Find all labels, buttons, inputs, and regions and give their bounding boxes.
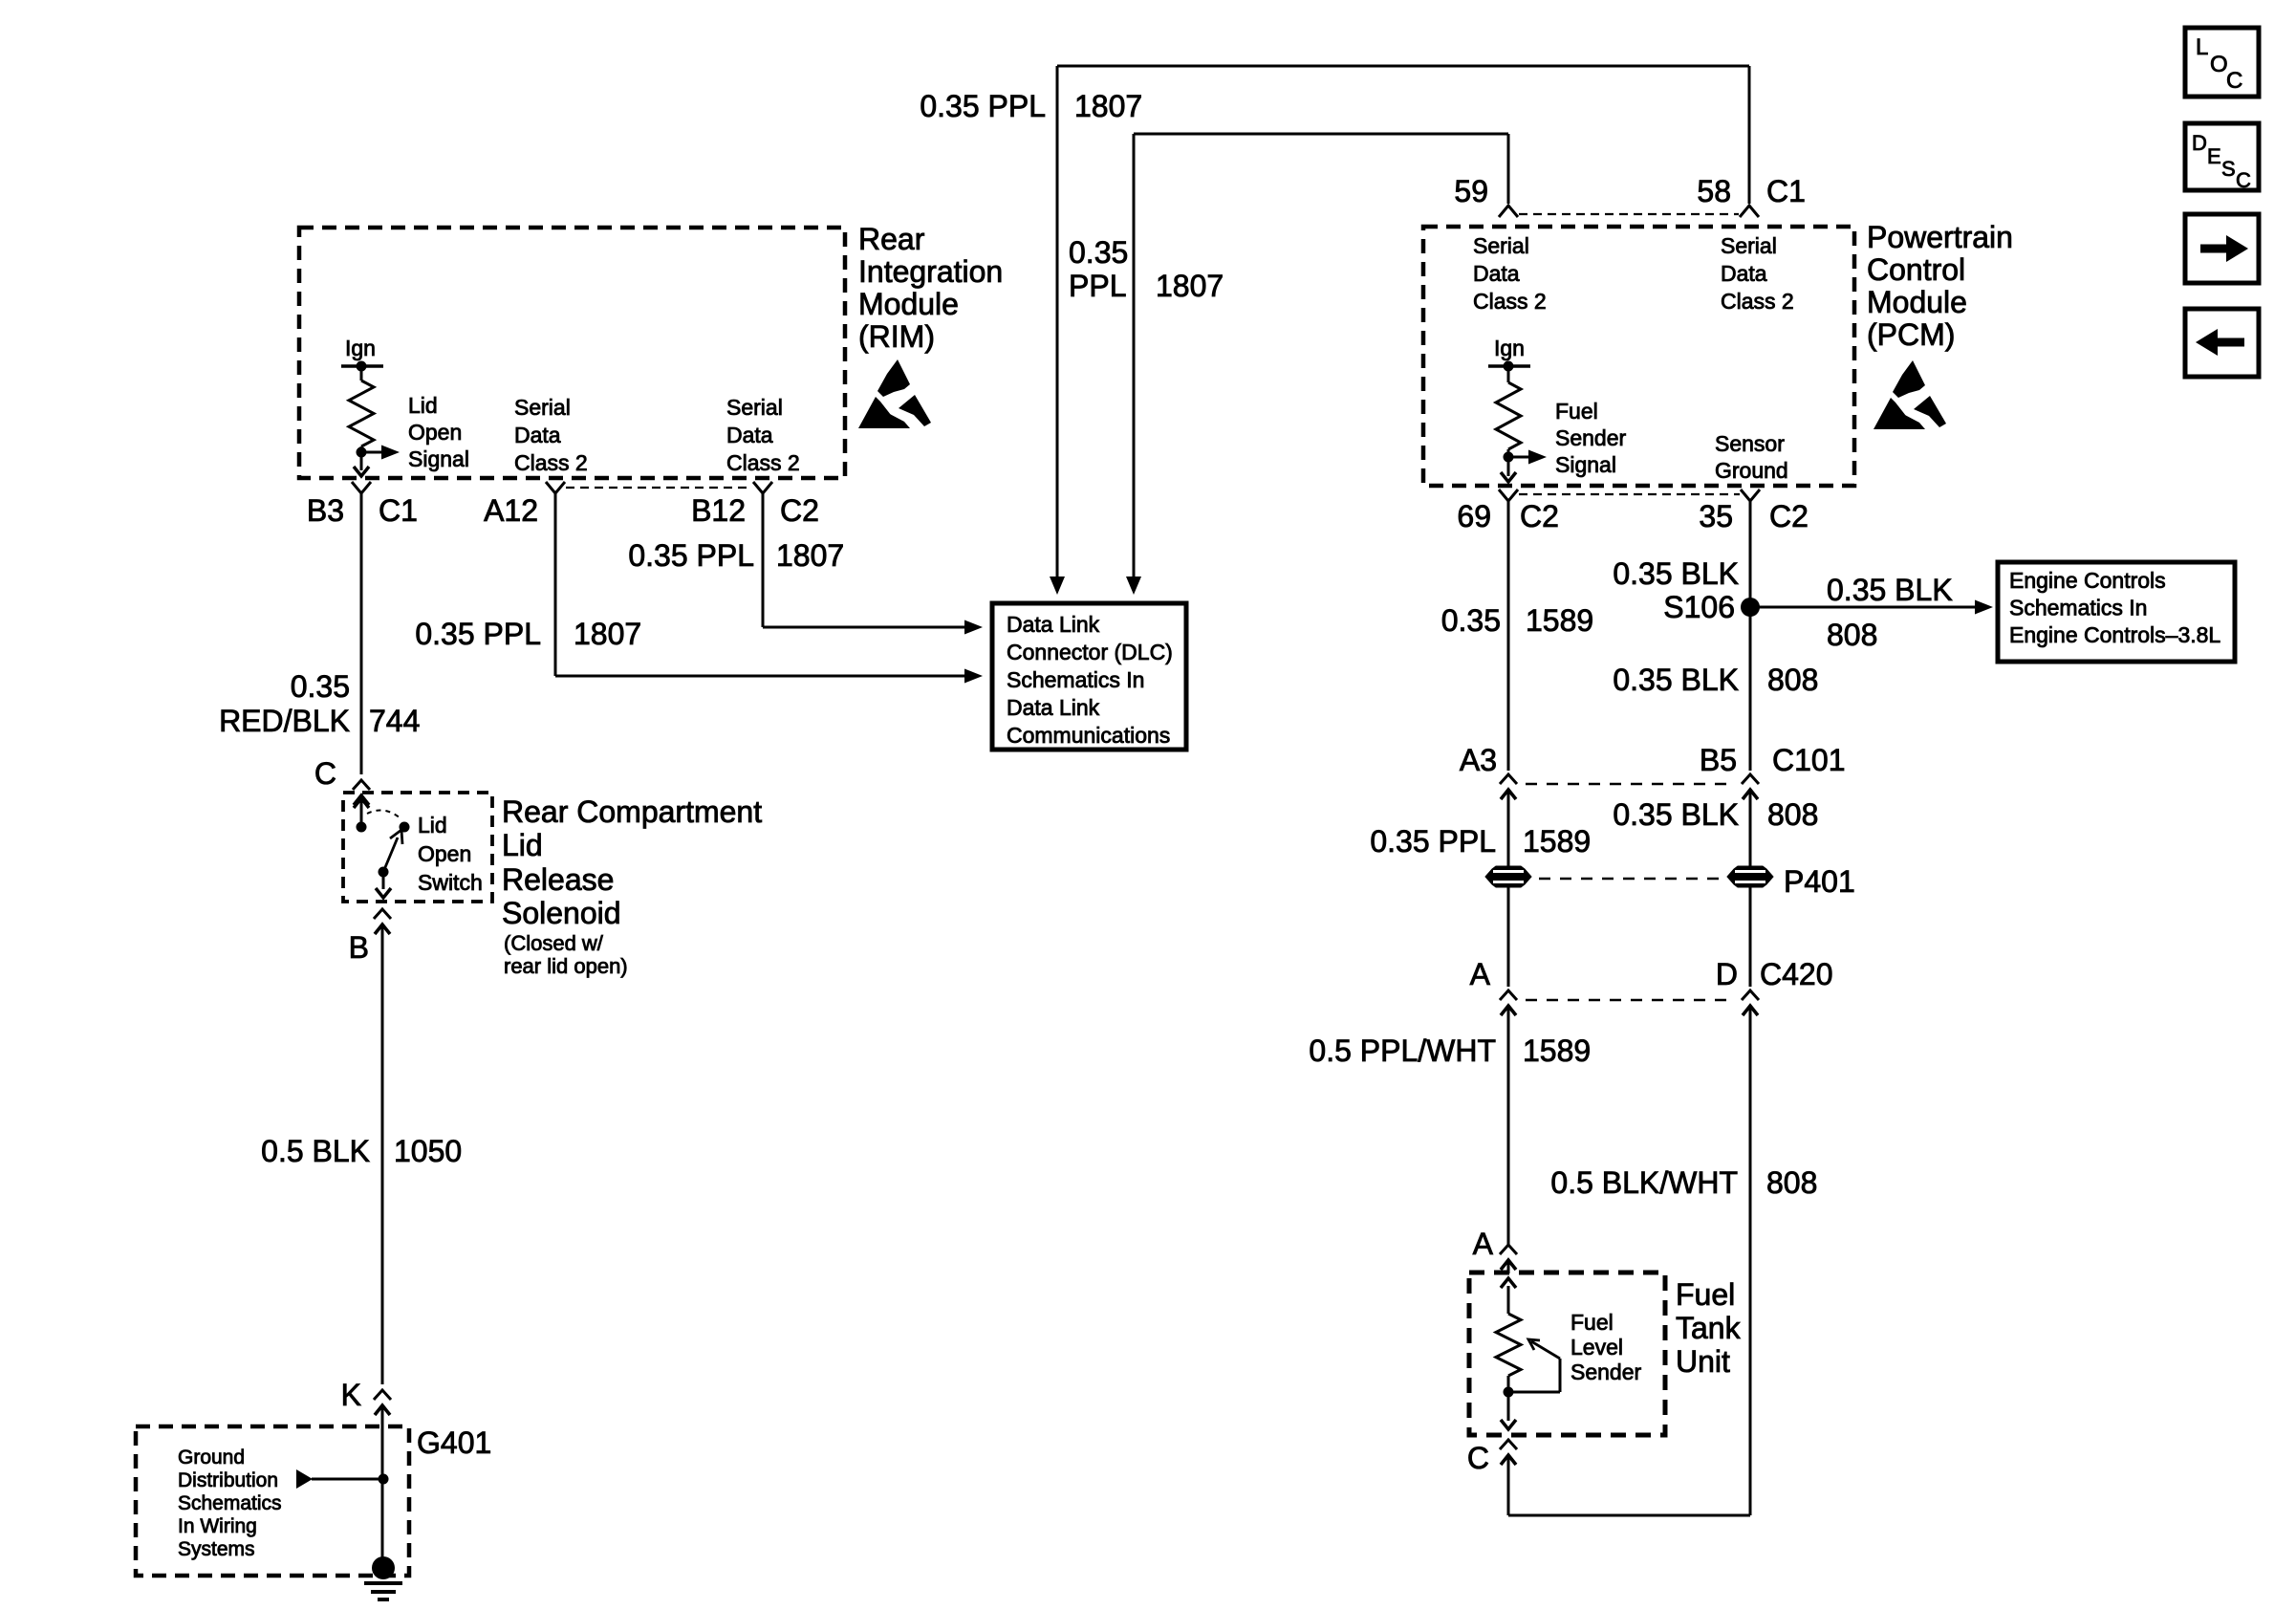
svg-text:C: C: [2226, 68, 2242, 94]
node B label: [349, 930, 369, 965]
svg-text:G401: G401: [417, 1425, 491, 1460]
G401 junction dot: [379, 1474, 389, 1485]
svg-text:C2: C2: [780, 493, 819, 528]
connector A inline (fuel tank): [1500, 1245, 1517, 1273]
svg-text:1807: 1807: [1156, 269, 1224, 303]
module PCM box: [1423, 227, 1854, 486]
pin label B5: [1700, 743, 1737, 777]
connector C420 dashed boundary: [1526, 999, 1733, 1002]
wire 1589 ppl (P401 to A): [1507, 887, 1510, 987]
svg-text:S106: S106: [1663, 590, 1735, 624]
svg-text:Solenoid: Solenoid: [502, 896, 621, 930]
G401 label: [417, 1425, 491, 1460]
svg-text:0.35 PPL: 0.35 PPL: [415, 617, 541, 651]
svg-text:35: 35: [1699, 499, 1733, 533]
RIM Ign net label: [345, 336, 376, 360]
switch contact dot (common): [357, 822, 367, 833]
connector K inline: [374, 1390, 391, 1419]
wire 1589 ppl (69 to A3): [1507, 501, 1510, 771]
svg-text:Communications: Communications: [1007, 723, 1170, 748]
wire 808 blk (S106 to engine controls): [1750, 600, 1993, 615]
svg-text:Schematics In: Schematics In: [1007, 667, 1144, 692]
svg-text:0.5 BLK/WHT: 0.5 BLK/WHT: [1550, 1165, 1738, 1200]
fuel sender junction dot: [1504, 1376, 1514, 1398]
svg-text:808: 808: [1767, 797, 1818, 832]
LOC navigation icon: [2185, 28, 2259, 97]
back arrow icon: [2185, 309, 2259, 377]
RIM label Lid Open Signal: [408, 393, 469, 471]
node S106 label: [1663, 590, 1735, 624]
svg-text:Module: Module: [1867, 285, 1967, 319]
fuel tank pin C internal arrow: [1501, 1392, 1516, 1429]
svg-text:rear lid open): rear lid open): [504, 954, 628, 978]
pin label 59: [1454, 174, 1488, 208]
switch mechanical link dashed arc: [367, 810, 401, 818]
ESD symbol (PCM): [1874, 360, 1946, 429]
svg-text:Rear: Rear: [858, 222, 925, 256]
svg-text:B: B: [349, 930, 369, 965]
svg-text:1050: 1050: [394, 1134, 462, 1168]
svg-text:Signal: Signal: [1555, 452, 1616, 477]
svg-text:Ground: Ground: [178, 1447, 245, 1469]
svg-text:C1: C1: [1766, 174, 1806, 208]
wire label 0.5 PPL/WHT 1589: [1309, 1033, 1591, 1068]
wire label 0.35 BLK (above S106): [1613, 556, 1739, 591]
svg-text:C2: C2: [1520, 499, 1559, 533]
PCM pin 58 connector fork: [1740, 206, 1759, 217]
svg-text:Data: Data: [1473, 261, 1520, 286]
DLC arrow (from B12): [964, 620, 983, 635]
svg-text:59: 59: [1454, 174, 1488, 208]
RIM label Serial Data Class 2 (B12): [726, 395, 800, 475]
wire label 0.5 BLK/WHT 808: [1550, 1165, 1817, 1200]
PCM pin 35 connector fork: [1741, 490, 1760, 501]
svg-text:0.35: 0.35: [1069, 235, 1128, 270]
svg-text:S: S: [2221, 157, 2236, 181]
svg-text:Engine Controls: Engine Controls: [2009, 568, 2166, 593]
svg-text:808: 808: [1827, 618, 1877, 652]
svg-text:In Wiring: In Wiring: [178, 1515, 257, 1537]
svg-text:Sender: Sender: [1570, 1360, 1642, 1384]
fuel tank unit box: [1469, 1273, 1665, 1435]
PCM pin 69 internal arrow: [1501, 457, 1516, 482]
connector label C2 (pin69): [1520, 499, 1559, 533]
svg-text:C: C: [1467, 1441, 1489, 1475]
svg-text:Fuel: Fuel: [1676, 1277, 1735, 1312]
svg-text:Systems: Systems: [178, 1538, 255, 1560]
svg-text:0.35: 0.35: [1441, 603, 1501, 638]
svg-text:L: L: [2196, 34, 2208, 60]
module RIM title: [858, 222, 1003, 354]
svg-text:Signal: Signal: [408, 446, 469, 471]
pin label 35: [1699, 499, 1733, 533]
PCM label Fuel Sender Signal: [1555, 399, 1627, 477]
svg-text:D: D: [1716, 957, 1738, 991]
svg-text:Fuel: Fuel: [1570, 1310, 1614, 1335]
svg-text:Data Link: Data Link: [1007, 695, 1100, 720]
svg-text:Release: Release: [502, 862, 614, 897]
connector C inline: [353, 780, 370, 809]
PCM label Serial Data Class 2 (58): [1721, 233, 1794, 314]
wire 1807 serial data class2 (PCM 59 to DLC): [1126, 134, 1508, 595]
svg-text:C2: C2: [1769, 499, 1809, 533]
svg-text:A3: A3: [1460, 743, 1497, 777]
PCM Ign net label: [1494, 336, 1525, 360]
PCM connector C1 dashed boundary: [1519, 213, 1739, 215]
svg-text:0.35 BLK: 0.35 BLK: [1613, 663, 1739, 697]
resistor R-RIM lid open pull-up: [349, 366, 374, 452]
svg-text:Serial: Serial: [726, 395, 783, 420]
svg-text:Switch: Switch: [418, 870, 483, 895]
node C label: [314, 756, 336, 791]
splice S106 junction dot: [1741, 598, 1760, 617]
svg-text:Unit: Unit: [1676, 1344, 1730, 1379]
connector label C2 (RIM): [780, 493, 819, 528]
svg-text:0.35: 0.35: [291, 669, 350, 704]
svg-text:Connector (DLC): Connector (DLC): [1007, 640, 1173, 664]
wire 808 blk (S106 to B5): [1749, 607, 1752, 771]
svg-text:0.35 PPL: 0.35 PPL: [920, 89, 1046, 123]
wire label 0.35 PPL 1807 (top): [920, 89, 1142, 123]
svg-text:D: D: [2192, 131, 2207, 155]
svg-text:0.5 BLK: 0.5 BLK: [261, 1134, 370, 1168]
svg-text:Open: Open: [408, 420, 462, 445]
pin label A (fuel tank): [1473, 1227, 1494, 1261]
pin label B3: [307, 493, 344, 528]
fuel tank pin A internal arrow: [1501, 1278, 1516, 1314]
svg-text:Lid: Lid: [408, 393, 438, 418]
wire label 0.35 PPL 1807 (B12 drop): [628, 538, 844, 573]
pin label A12: [484, 493, 538, 528]
RIM pin B12 connector fork: [753, 482, 772, 493]
node K label: [341, 1378, 361, 1412]
svg-text:744: 744: [369, 704, 420, 738]
wire 1050 black (B to K): [381, 938, 384, 1384]
pin label D (C420): [1716, 957, 1738, 991]
svg-text:Lid: Lid: [418, 813, 447, 838]
RIM ignition feed bar: [341, 364, 383, 368]
connector C101 inline (A3): [1500, 774, 1517, 803]
ground distribution reference box G401: [136, 1426, 409, 1576]
connector B inline: [374, 909, 391, 938]
svg-text:Data: Data: [1721, 261, 1767, 286]
fuel sender wiper arrow: [1508, 1339, 1560, 1392]
RIM junction dot (signal): [357, 447, 367, 458]
grommet P401 (left): [1485, 866, 1531, 887]
pin label B12: [691, 493, 746, 528]
DLC arrow (from A12): [964, 669, 983, 684]
resistor R-PCM fuel sender pull-up: [1496, 366, 1521, 457]
connector label C1 (PCM): [1766, 174, 1806, 208]
RIM lid open signal arrow: [361, 446, 400, 460]
svg-text:69: 69: [1457, 499, 1491, 533]
svg-text:808: 808: [1767, 663, 1818, 697]
wire 1807 (RIM A12 to DLC): [555, 493, 964, 676]
svg-text:Class 2: Class 2: [514, 450, 588, 475]
svg-text:(Closed w/: (Closed w/: [504, 931, 604, 955]
svg-text:A12: A12: [484, 493, 538, 528]
svg-text:Data: Data: [514, 423, 561, 447]
wire to ground stud: [381, 1419, 384, 1558]
wire label 0.35 RED/BLK 744: [219, 669, 420, 738]
svg-text:B12: B12: [691, 493, 746, 528]
fuel tank unit title: [1676, 1277, 1742, 1379]
svg-text:Engine Controls–3.8L: Engine Controls–3.8L: [2009, 622, 2220, 647]
svg-text:(PCM): (PCM): [1867, 317, 1955, 352]
DESC navigation icon: [2185, 123, 2259, 192]
wire sensor ground return: [1508, 1469, 1750, 1515]
wire 1807 serial data class2 (PCM 58 to DLC): [1050, 66, 1749, 595]
ground G401 symbol: [364, 1556, 402, 1599]
svg-text:0.35 BLK: 0.35 BLK: [1613, 797, 1739, 832]
PCM pin 59 connector fork: [1499, 206, 1518, 217]
forward arrow icon: [2185, 214, 2259, 283]
connector label C420: [1760, 957, 1833, 991]
svg-text:Serial: Serial: [1721, 233, 1777, 258]
svg-text:Class 2: Class 2: [1473, 289, 1547, 314]
PCM ignition feed bar: [1488, 364, 1530, 368]
PCM junction dot (signal): [1504, 452, 1514, 463]
engine controls reference box: [1998, 562, 2235, 662]
svg-text:0.35 PPL: 0.35 PPL: [1370, 824, 1496, 859]
svg-text:O: O: [2210, 52, 2228, 77]
svg-text:Sender: Sender: [1555, 425, 1627, 450]
svg-text:C: C: [2236, 168, 2251, 192]
ground distribution text: [178, 1447, 282, 1560]
PCM fuel sender signal arrow: [1508, 450, 1547, 465]
RIM pin B3 internal arrow: [354, 452, 369, 476]
wire label 0.5 BLK 1050: [261, 1134, 462, 1168]
PCM connector C2 dashed boundary: [1519, 493, 1740, 495]
RIM connector C2 dashed boundary: [566, 487, 752, 489]
rear compartment lid release solenoid box: [343, 793, 492, 902]
wire label 0.35 PPL 1807 (second): [1069, 235, 1224, 303]
svg-text:Schematics: Schematics: [178, 1492, 282, 1514]
svg-text:0.35 BLK: 0.35 BLK: [1613, 556, 1739, 591]
wire 744 red/blk (B3 to C): [360, 493, 363, 774]
wire 1589 ppl (A3 to P401): [1507, 803, 1510, 866]
connector C420 inline (A): [1500, 990, 1517, 1019]
pin label A3: [1460, 743, 1497, 777]
svg-text:1807: 1807: [776, 538, 844, 573]
svg-text:Data Link: Data Link: [1007, 612, 1100, 637]
wire 1589 ppl/wht (A to fuel tank): [1507, 1019, 1510, 1245]
node C label (fuel tank): [1467, 1441, 1489, 1475]
grommet P401 dashed boundary: [1539, 878, 1721, 881]
switch pivot dot: [379, 867, 389, 878]
wire label 0.35 BLK 808 (branch): [1827, 573, 1953, 652]
connector C101 dashed boundary: [1526, 783, 1733, 786]
svg-text:Class 2: Class 2: [1721, 289, 1794, 314]
label Fuel Level Sender: [1570, 1310, 1642, 1384]
DLC reference text: [1007, 612, 1173, 748]
svg-text:RED/BLK: RED/BLK: [219, 704, 350, 738]
wire 808 blk (B5 to P401): [1749, 803, 1752, 866]
PCM pin 69 connector fork: [1499, 490, 1518, 501]
DLC reference box: [992, 603, 1186, 750]
connector C420 inline (D): [1742, 990, 1759, 1019]
grommet P401 (right): [1727, 866, 1773, 887]
svg-text:0.5 PPL/WHT: 0.5 PPL/WHT: [1309, 1033, 1496, 1068]
svg-text:Integration: Integration: [858, 254, 1003, 289]
switch upper contact arrow: [354, 798, 369, 827]
svg-text:Powertrain: Powertrain: [1867, 220, 2013, 254]
connector label C101: [1772, 743, 1846, 777]
svg-text:P401: P401: [1784, 864, 1855, 899]
svg-text:Ground: Ground: [1715, 458, 1788, 483]
svg-text:B3: B3: [307, 493, 344, 528]
svg-text:1807: 1807: [1074, 89, 1142, 123]
svg-text:E: E: [2207, 144, 2221, 168]
svg-text:1807: 1807: [574, 617, 641, 651]
wire label 0.35 PPL 1807 (A12 drop): [415, 617, 641, 651]
connector C101 inline (B5): [1742, 774, 1759, 803]
PCM label Sensor Ground: [1715, 431, 1788, 483]
svg-text:0.35 BLK: 0.35 BLK: [1827, 573, 1953, 607]
svg-text:Schematics In: Schematics In: [2009, 596, 2147, 620]
svg-text:Fuel: Fuel: [1555, 399, 1598, 424]
solenoid note: [504, 931, 628, 978]
connector C inline (fuel tank): [1500, 1440, 1517, 1469]
svg-text:C: C: [314, 756, 336, 791]
resistor fuel level sender: [1496, 1314, 1521, 1376]
ground ref arrow: [296, 1469, 383, 1489]
svg-text:Module: Module: [858, 287, 959, 321]
svg-text:K: K: [341, 1378, 361, 1412]
svg-text:58: 58: [1697, 174, 1731, 208]
solenoid title: [502, 794, 762, 930]
svg-text:A: A: [1473, 1227, 1494, 1261]
pin label A (C420): [1470, 957, 1491, 991]
svg-text:Serial: Serial: [1473, 233, 1529, 258]
svg-text:Lid: Lid: [502, 828, 543, 862]
module PCM title: [1867, 220, 2013, 352]
switch blade S1 lid open switch: [383, 830, 402, 872]
svg-text:0.35 PPL: 0.35 PPL: [628, 538, 754, 573]
svg-text:Sensor: Sensor: [1715, 431, 1785, 456]
module RIM box: [299, 228, 845, 478]
svg-text:C101: C101: [1772, 743, 1846, 777]
svg-text:Rear Compartment: Rear Compartment: [502, 794, 762, 829]
svg-text:B5: B5: [1700, 743, 1737, 777]
svg-text:Ign: Ign: [1494, 336, 1525, 360]
wire 808 blk/wht (D to bottom): [1749, 1019, 1752, 1515]
svg-text:1589: 1589: [1523, 1033, 1591, 1068]
switch contact dot (lid): [400, 822, 410, 833]
wire label 0.35 BLK 808 (upper): [1613, 663, 1818, 697]
svg-text:Serial: Serial: [514, 395, 571, 420]
wire 1807 (RIM B12/C2 to DLC): [763, 493, 964, 627]
svg-text:Level: Level: [1570, 1335, 1623, 1360]
svg-text:A: A: [1470, 957, 1491, 991]
wire 808 blk (P401 to D): [1749, 887, 1752, 987]
svg-text:Data: Data: [726, 423, 773, 447]
svg-text:Control: Control: [1867, 252, 1965, 287]
svg-text:Ign: Ign: [345, 336, 376, 360]
connector label C1 (RIM): [379, 493, 418, 528]
RIM junction dot (Ign): [357, 361, 367, 372]
svg-text:Open: Open: [418, 841, 471, 866]
svg-text:1589: 1589: [1523, 824, 1591, 859]
wire 808 blk (35 to S106): [1749, 501, 1752, 607]
PCM label Serial Data Class 2 (59): [1473, 233, 1547, 314]
RIM label Serial Data Class 2 (A12): [514, 395, 588, 475]
PCM junction dot (Ign): [1504, 361, 1514, 372]
ESD symbol (RIM): [858, 359, 931, 428]
pin label 58: [1697, 174, 1731, 208]
svg-text:(RIM): (RIM): [858, 319, 935, 354]
svg-text:Distribution: Distribution: [178, 1469, 278, 1491]
connector label P401: [1784, 864, 1855, 899]
switch lower arrow: [376, 872, 391, 898]
svg-text:808: 808: [1766, 1165, 1817, 1200]
wire label 0.35 PPL 1589 (above P401): [1370, 824, 1591, 859]
svg-text:Class 2: Class 2: [726, 450, 800, 475]
svg-text:PPL: PPL: [1069, 269, 1126, 303]
svg-text:C420: C420: [1760, 957, 1833, 991]
svg-text:C1: C1: [379, 493, 418, 528]
engine controls reference text: [2009, 568, 2220, 647]
svg-text:1589: 1589: [1526, 603, 1593, 638]
label Lid Open Switch: [418, 813, 483, 895]
wire label 0.35 1589: [1441, 603, 1593, 638]
connector label C2 (pin35): [1769, 499, 1809, 533]
RIM pin A12 connector fork: [546, 482, 565, 493]
svg-text:Tank: Tank: [1676, 1311, 1742, 1345]
wire label 0.35 BLK 808 (below C101): [1613, 797, 1818, 832]
RIM pin B3 connector fork: [352, 482, 371, 493]
pin label 69: [1457, 499, 1491, 533]
